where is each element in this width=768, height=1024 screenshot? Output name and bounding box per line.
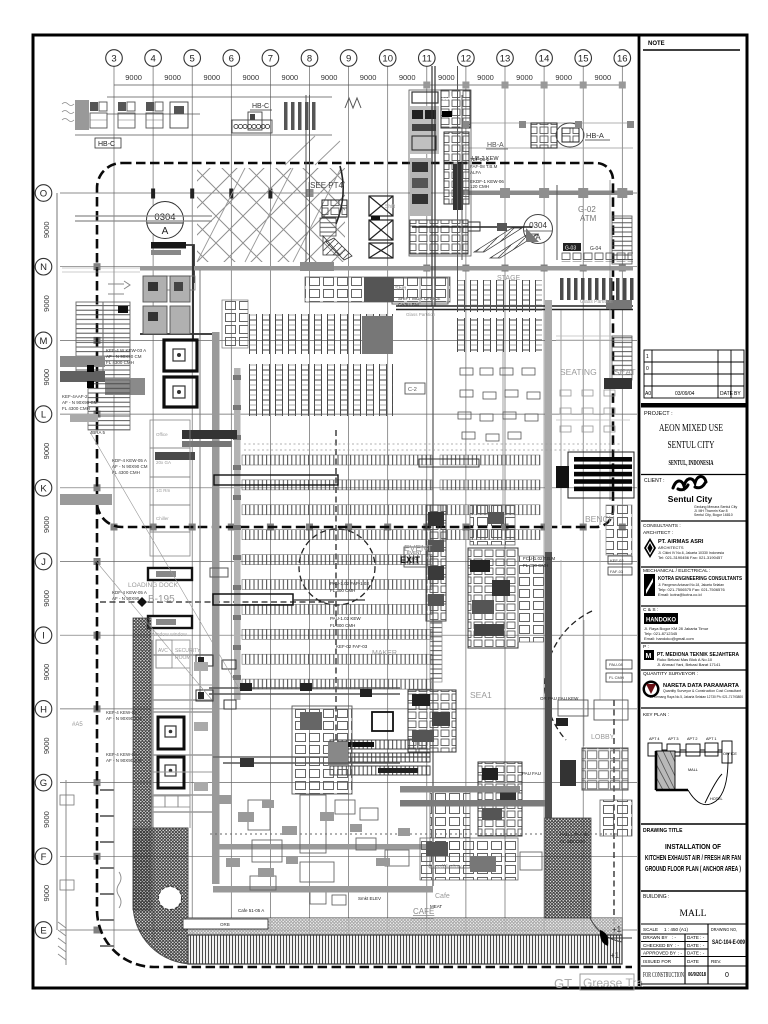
svg-text:KEF-02: KEF-02 xyxy=(610,558,624,563)
svg-text:ARCHITECT :: ARCHITECT : xyxy=(643,530,673,536)
svg-text:Jl. Ahmad Yani, Bekasi Barat 1: Jl. Ahmad Yani, Bekasi Barat 17141 xyxy=(657,662,721,667)
svg-text:9000: 9000 xyxy=(42,664,51,681)
svg-text:DATE : -: DATE : - xyxy=(687,935,705,940)
svg-text:G-04: G-04 xyxy=(590,246,601,252)
svg-text:120 CMH: 120 CMH xyxy=(470,184,489,189)
svg-text:GT: GT xyxy=(554,976,572,991)
svg-text:9000: 9000 xyxy=(321,73,338,82)
svg-text:5: 5 xyxy=(190,54,195,65)
svg-text:KITCHEN EXHAUST AIR / FRESH AI: KITCHEN EXHAUST AIR / FRESH AIR FAN xyxy=(645,855,741,862)
svg-text:BY: BY xyxy=(734,391,741,397)
svg-text:Sentul City: Sentul City xyxy=(668,494,713,504)
svg-text:KEY PLAN :: KEY PLAN : xyxy=(643,712,669,718)
svg-text:13: 13 xyxy=(500,54,511,65)
svg-text:|SEE PT4: |SEE PT4 xyxy=(308,181,344,190)
svg-text:12: 12 xyxy=(461,54,472,65)
svg-text:OFFICE: OFFICE xyxy=(723,752,737,756)
svg-text:: -: : - xyxy=(672,935,677,940)
svg-text:KDF-4 KEW-05 A: KDF-4 KEW-05 A xyxy=(112,590,147,595)
svg-text:KEF-02 FAF-03: KEF-02 FAF-03 xyxy=(336,644,368,649)
svg-text:ORB: ORB xyxy=(220,922,230,927)
svg-text:STAGE: STAGE xyxy=(497,275,521,282)
svg-text:9000: 9000 xyxy=(42,369,51,386)
svg-text:ISSUED FOR: ISSUED FOR xyxy=(643,959,672,964)
svg-text:INSTALLATION OF: INSTALLATION OF xyxy=(665,844,722,851)
svg-text:DATE : -: DATE : - xyxy=(687,943,705,948)
svg-text:FL CMH: FL CMH xyxy=(609,675,624,680)
svg-text:Cafe 51-05 A: Cafe 51-05 A xyxy=(238,908,264,913)
svg-text:Jl. Kemang Raya No.5, Jakarta: Jl. Kemang Raya No.5, Jakarta Selatan 12… xyxy=(650,694,744,699)
svg-text:11: 11 xyxy=(422,54,432,65)
svg-text:8: 8 xyxy=(307,54,312,65)
svg-text:PAU-1.02 KEW: PAU-1.02 KEW xyxy=(330,616,361,621)
svg-text:BENCH: BENCH xyxy=(585,514,615,524)
svg-text:REV.: REV. xyxy=(711,959,721,964)
svg-text:9000: 9000 xyxy=(42,590,51,607)
svg-text:MALL: MALL xyxy=(680,909,707,919)
svg-text:N: N xyxy=(40,262,47,273)
svg-text:HB-A: HB-A xyxy=(487,142,504,149)
svg-text:SECURITY: SECURITY xyxy=(175,648,201,654)
svg-text:03/09/04: 03/09/04 xyxy=(675,391,695,397)
svg-text:1 : 450 (A1): 1 : 450 (A1) xyxy=(664,927,688,932)
svg-text:F: F xyxy=(41,852,47,863)
svg-text:I: I xyxy=(42,631,45,642)
svg-text:EXIT: EXIT xyxy=(400,555,421,565)
svg-text:SENTUL, INDONESIA: SENTUL, INDONESIA xyxy=(669,459,714,467)
svg-text:O: O xyxy=(40,189,47,200)
svg-text:9000: 9000 xyxy=(438,73,455,82)
svg-text:: -: : - xyxy=(675,943,680,948)
svg-text:HB-C: HB-C xyxy=(98,141,115,148)
svg-text:M: M xyxy=(646,653,652,660)
svg-text:GlassWindow: GlassWindow xyxy=(428,864,462,870)
svg-text:NOTE: NOTE xyxy=(648,41,665,47)
svg-text:9000: 9000 xyxy=(282,73,299,82)
svg-text:window window: window window xyxy=(152,632,187,638)
svg-text:SAC-104-E-009: SAC-104-E-009 xyxy=(712,940,746,946)
svg-text:E: E xyxy=(40,926,46,937)
svg-text:APT 1: APT 1 xyxy=(706,737,716,741)
svg-text:FL 4300 CMH: FL 4300 CMH xyxy=(112,470,140,475)
svg-text:HB-A: HB-A xyxy=(586,131,604,140)
svg-text:P :: P : xyxy=(643,644,649,650)
svg-text:DRAWING TITLE: DRAWING TITLE xyxy=(643,828,683,834)
svg-text:G: G xyxy=(40,778,47,789)
svg-text:9000: 9000 xyxy=(203,73,220,82)
svg-text:: -: : - xyxy=(678,951,683,956)
svg-text:AVC: AVC xyxy=(158,648,168,654)
svg-text:9000: 9000 xyxy=(516,73,533,82)
svg-text:G-03: G-03 xyxy=(565,246,576,252)
svg-text:G-02: G-02 xyxy=(578,205,596,214)
svg-text:14: 14 xyxy=(539,54,550,65)
svg-text:9000: 9000 xyxy=(42,516,51,533)
svg-text:SEATING: SEATING xyxy=(560,367,597,377)
svg-text:FCU-1.02 T.B.M: FCU-1.02 T.B.M xyxy=(523,556,555,561)
svg-text:9000: 9000 xyxy=(594,73,611,82)
svg-text:9000: 9000 xyxy=(42,221,51,238)
svg-text:TEF-03-1: TEF-03-1 xyxy=(470,157,490,162)
svg-text:APT 4: APT 4 xyxy=(649,737,659,741)
svg-text:0304: 0304 xyxy=(529,221,547,230)
svg-text:1G Rm: 1G Rm xyxy=(156,488,171,493)
svg-text:MAKER: MAKER xyxy=(372,650,397,657)
svg-text:Glass Partition: Glass Partition xyxy=(580,299,613,305)
svg-text:9000: 9000 xyxy=(42,737,51,754)
svg-text:SCALE: SCALE xyxy=(643,927,658,932)
svg-text:PROJECT :: PROJECT : xyxy=(644,411,673,417)
svg-text:LOBBY: LOBBY xyxy=(591,734,615,741)
svg-text:HB-C: HB-C xyxy=(252,103,269,110)
svg-text:JBRA 5: JBRA 5 xyxy=(90,430,106,435)
svg-text:+1: +1 xyxy=(612,925,622,934)
svg-text:FL 300 CMH: FL 300 CMH xyxy=(330,588,355,593)
svg-text:AEON MIXED USE: AEON MIXED USE xyxy=(659,422,723,434)
svg-text:9000: 9000 xyxy=(42,885,51,902)
svg-text:CAFE: CAFE xyxy=(413,907,434,916)
svg-text:APT 3: APT 3 xyxy=(668,737,678,741)
svg-text:#A5: #A5 xyxy=(72,722,83,728)
svg-text:J: J xyxy=(41,557,46,568)
svg-text:FL 4300 CMH: FL 4300 CMH xyxy=(106,360,134,365)
svg-text:KDF-4 KEW-05 A: KDF-4 KEW-05 A xyxy=(112,458,147,463)
svg-text:AF - N 90X90 CM: AF - N 90X90 CM xyxy=(106,354,142,359)
svg-text:10: 10 xyxy=(382,54,393,65)
svg-text:HANDOKO: HANDOKO xyxy=(646,617,676,624)
svg-text:Email: kotra@kotra.co.id: Email: kotra@kotra.co.id xyxy=(658,592,702,597)
svg-text:GROUND FLOOR PLAN ( ANCHOR ARE: GROUND FLOOR PLAN ( ANCHOR AREA ) xyxy=(645,866,741,873)
svg-text:MECHANICAL / ELECTRICAL :: MECHANICAL / ELECTRICAL : xyxy=(643,568,710,574)
svg-text:FAF-08 T.B.M: FAF-08 T.B.M xyxy=(470,164,498,169)
svg-text:FL 300 CMH: FL 300 CMH xyxy=(330,623,355,628)
svg-text:Tel: 021-3190456 Fax: 021-319: Tel: 021-3190456 Fax: 021-3190457 xyxy=(658,555,723,560)
svg-text:AF - N 90X90 CM: AF - N 90X90 CM xyxy=(62,400,98,405)
svg-text:4: 4 xyxy=(150,54,155,65)
svg-text:C-2: C-2 xyxy=(408,387,417,393)
svg-text:PAU-1 FAF-08: PAU-1 FAF-08 xyxy=(560,832,589,837)
svg-text:PAU FAU: PAU FAU xyxy=(522,771,541,776)
svg-text:9000: 9000 xyxy=(164,73,181,82)
svg-text:Chiller: Chiller xyxy=(156,516,169,521)
svg-text:ALFA: ALFA xyxy=(470,170,481,175)
svg-text:Sentul City, Bogor 16810: Sentul City, Bogor 16810 xyxy=(694,513,733,517)
svg-text:ATM: ATM xyxy=(580,214,597,223)
svg-text:Smkt ELEV: Smkt ELEV xyxy=(358,896,381,901)
svg-text:FL 430 CMH: FL 430 CMH xyxy=(560,839,585,844)
svg-text:CLIENT :: CLIENT : xyxy=(644,478,664,484)
svg-text:KEF-4 W KEW-03 A: KEF-4 W KEW-03 A xyxy=(106,348,146,353)
svg-text:K: K xyxy=(40,483,47,494)
svg-text:HOTEL: HOTEL xyxy=(710,797,723,801)
svg-text:H: H xyxy=(40,704,47,715)
svg-text:Shift: Shift xyxy=(385,204,396,210)
svg-text:SDP: SDP xyxy=(442,96,453,102)
svg-text:9: 9 xyxy=(346,54,351,65)
svg-text:FL 4300 CMH: FL 4300 CMH xyxy=(62,406,90,411)
svg-text:DATE : -: DATE : - xyxy=(687,951,705,956)
svg-text:EVENT: EVENT xyxy=(404,543,432,553)
svg-text:Email: handoko@gmail.com: Email: handoko@gmail.com xyxy=(644,636,695,641)
svg-text:OR PAU FAU KEW: OR PAU FAU KEW xyxy=(540,696,579,701)
svg-text:9000: 9000 xyxy=(42,295,51,312)
svg-text:SEA1: SEA1 xyxy=(470,690,492,700)
svg-text:APPROVED BY: APPROVED BY xyxy=(643,951,676,956)
svg-text:Grease Tra: Grease Tra xyxy=(583,976,643,990)
svg-text:A: A xyxy=(162,226,169,237)
svg-text:6: 6 xyxy=(229,54,234,65)
svg-text:20x GA: 20x GA xyxy=(156,460,171,465)
svg-text:FL 300 CMH: FL 300 CMH xyxy=(523,563,548,568)
svg-text:L: L xyxy=(41,410,46,421)
svg-text:PAU-08: PAU-08 xyxy=(609,662,623,667)
svg-text:9000: 9000 xyxy=(242,73,259,82)
svg-text:9000: 9000 xyxy=(42,443,51,460)
svg-text:Glass Partition: Glass Partition xyxy=(406,312,436,317)
svg-text:7: 7 xyxy=(268,54,273,65)
svg-text:9000: 9000 xyxy=(125,73,142,82)
svg-text:0: 0 xyxy=(646,366,649,372)
svg-text:DRAWN BY: DRAWN BY xyxy=(643,935,668,940)
svg-text:PAU-1.02 FAF-1.03: PAU-1.02 FAF-1.03 xyxy=(330,581,369,586)
svg-text:Cafe: Cafe xyxy=(435,893,450,900)
svg-text:9000: 9000 xyxy=(555,73,572,82)
svg-text:3: 3 xyxy=(111,54,116,65)
svg-text:06/9/2018: 06/9/2018 xyxy=(688,972,706,978)
svg-text:DRAWING NO,: DRAWING NO, xyxy=(711,927,737,932)
svg-text:M: M xyxy=(40,336,48,347)
svg-text:FOR CONSTRUCTION: FOR CONSTRUCTION xyxy=(643,972,684,979)
svg-text:KEF-4AAF-2: KEF-4AAF-2 xyxy=(62,394,88,399)
svg-text:DATE: DATE xyxy=(687,959,699,964)
svg-text:CHECKED BY: CHECKED BY xyxy=(643,943,673,948)
svg-text:+1: +1 xyxy=(610,951,620,960)
svg-text:SENTUL CITY: SENTUL CITY xyxy=(668,439,715,451)
svg-text:BUILDING :: BUILDING : xyxy=(643,894,669,900)
svg-text:1: 1 xyxy=(646,354,649,360)
svg-text:APT 2: APT 2 xyxy=(687,737,697,741)
svg-text:CONSULTANTS :: CONSULTANTS : xyxy=(643,523,681,529)
svg-text:Quantity Surveyor & Constructi: Quantity Surveyor & Construction Cost Co… xyxy=(663,688,742,693)
svg-text:B-195: B-195 xyxy=(148,594,175,605)
svg-text:Office: Office xyxy=(156,432,168,437)
svg-text:QUANTITY SURVEYOR :: QUANTITY SURVEYOR : xyxy=(643,671,698,677)
svg-text:LOADING DOCK: LOADING DOCK xyxy=(128,582,179,589)
svg-text:MALL: MALL xyxy=(688,768,698,772)
svg-text:SEAT: SEAT xyxy=(614,367,636,377)
svg-text:0: 0 xyxy=(725,972,729,979)
svg-text:Shift: Shift xyxy=(395,286,406,292)
svg-text:C & S :: C & S : xyxy=(643,607,658,613)
svg-text:ROOM: ROOM xyxy=(175,655,191,661)
svg-text:9000: 9000 xyxy=(42,811,51,828)
svg-text:15: 15 xyxy=(578,54,589,65)
svg-text:A0: A0 xyxy=(645,391,651,397)
svg-text:9000: 9000 xyxy=(399,73,416,82)
svg-text:DATE: DATE xyxy=(720,391,734,397)
svg-text:9000: 9000 xyxy=(360,73,377,82)
svg-text:AF - N 90X90 CM: AF - N 90X90 CM xyxy=(112,464,148,469)
svg-text:9000: 9000 xyxy=(477,73,494,82)
svg-text:FAF-03: FAF-03 xyxy=(610,569,624,574)
svg-text:16: 16 xyxy=(617,54,628,65)
